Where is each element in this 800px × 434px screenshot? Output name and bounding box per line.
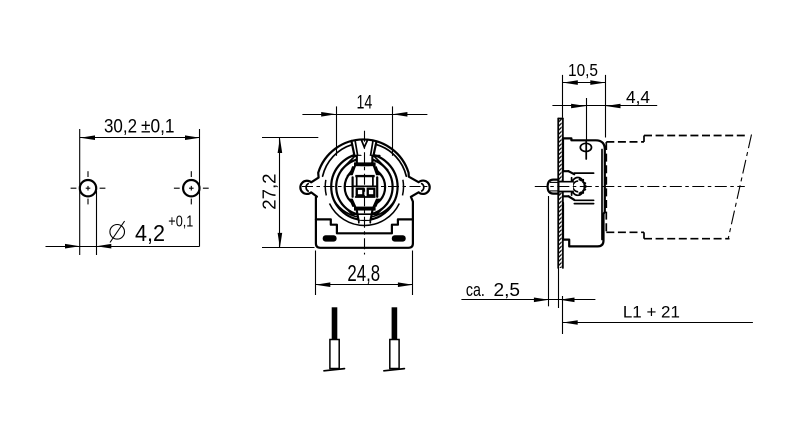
horizontal centerline (302, 186, 427, 188)
lower dark band (354, 207, 376, 211)
boss top line (563, 170, 569, 172)
crosshair right hole (174, 171, 209, 204)
funnel diagonals lower (341, 204, 352, 215)
boss bottom diagonal (569, 196, 575, 200)
dim L1+21 line (563, 322, 753, 324)
lamp break line (728, 135, 751, 239)
block top dark cap (355, 175, 374, 178)
base internal step line (316, 219, 413, 233)
base slot right (392, 235, 406, 241)
top hole ellipse (580, 143, 591, 151)
dome inner arc left (323, 145, 352, 177)
dim 14 extension lines (336, 106, 338, 155)
pocket arc left fragment (325, 180, 326, 196)
funnel diagonals upper (341, 157, 354, 170)
V notch in tab (361, 140, 368, 148)
pin head (548, 180, 559, 194)
dim dia 4,2 line (46, 246, 200, 248)
svg-text:4,4: 4,4 (626, 87, 650, 107)
crown teeth (579, 179, 586, 194)
svg-text:ca.: ca. (466, 279, 485, 300)
ring bottom reinforcement arc (334, 200, 395, 217)
dim 4,4 line (552, 105, 657, 107)
neck dark band (354, 162, 376, 166)
neck (357, 156, 373, 163)
body inner right line (601, 150, 603, 240)
tab shoulders (352, 155, 360, 157)
crown washer (571, 178, 584, 196)
pocket arc bottom (330, 204, 400, 226)
pin shaft (558, 182, 573, 192)
wire right bare (390, 340, 399, 369)
tangent line right of left hole (96, 191, 98, 255)
dim ca 2,5 line (461, 299, 595, 301)
dim 24,8 line (316, 284, 413, 286)
dim 30,2 extension lines (79, 129, 81, 255)
SIDE VIEW (535, 119, 752, 269)
svg-text:4,2: 4,2 (135, 220, 165, 246)
dim 27,2 extension lines (262, 137, 318, 139)
boss parallel lines (574, 199, 593, 201)
body front face line (585, 140, 587, 159)
DIMENSIONS (46, 60, 753, 334)
dim ca 2,5 extension lines (548, 196, 550, 306)
lamp outline dashed (606, 136, 748, 239)
ring inner circle (336, 159, 392, 215)
rotor circle (345, 167, 385, 207)
svg-text:±0,1: ±0,1 (141, 116, 175, 137)
plate edges (558, 119, 563, 269)
wire left insulated (332, 307, 338, 339)
svg-text:14: 14 (357, 93, 373, 114)
diameter symbol (110, 225, 125, 240)
dim 4,4 extension line (586, 98, 588, 159)
mounting plate hatch (558, 119, 563, 182)
LEFT VIEW (71, 171, 209, 204)
pocket arc right fragment (403, 180, 404, 196)
right ear knob inner arc (422, 184, 424, 191)
side centerline (535, 186, 745, 188)
top tab (stem) (351, 141, 376, 156)
dim 24,8 extension lines (315, 251, 317, 296)
dim 10,5 extension lines (562, 75, 564, 118)
wire left bare (330, 340, 339, 369)
slot top line (574, 172, 593, 174)
dim 10,5 line (563, 82, 606, 84)
boss step diagonal (569, 171, 575, 174)
wire right insulated (392, 307, 398, 339)
svg-text:L1 + 21: L1 + 21 (623, 303, 680, 322)
mounting hole left (80, 180, 96, 196)
svg-text:24,8: 24,8 (347, 260, 380, 286)
dim 27,2 line (279, 138, 281, 248)
base slot left (323, 235, 337, 241)
boss bottom line (563, 195, 569, 197)
dim 30,2 line (80, 137, 200, 139)
wire left break (324, 369, 345, 371)
mounting hole right (183, 180, 199, 196)
crosshair left hole (71, 171, 106, 204)
lower flare wedges (352, 199, 378, 207)
ring outer circle (331, 154, 397, 220)
svg-text:27,2: 27,2 (259, 174, 280, 210)
body outline with dome, ears, base (300, 139, 429, 247)
dim 14 line (302, 114, 427, 116)
dome inner arc right (377, 145, 406, 176)
dim L1+21 extension line (562, 296, 564, 334)
central block (353, 177, 378, 197)
pin sockets (dark squares with white centers) (356, 188, 365, 197)
svg-text:10,5: 10,5 (568, 60, 598, 80)
upper flare wedges (352, 166, 378, 175)
svg-text:+0,1: +0,1 (168, 214, 193, 231)
wire right break (384, 369, 405, 371)
line under sockets (356, 196, 375, 198)
bottom trapezoid (357, 211, 373, 220)
crown left edge (571, 178, 573, 195)
MIDDLE VIEW (300, 131, 429, 371)
holder body outline (563, 138, 605, 246)
vertical centerline (364, 131, 366, 255)
svg-text:30,2: 30,2 (104, 116, 137, 137)
svg-text:2,5: 2,5 (494, 279, 521, 300)
left ear knob inner arc (306, 184, 308, 191)
